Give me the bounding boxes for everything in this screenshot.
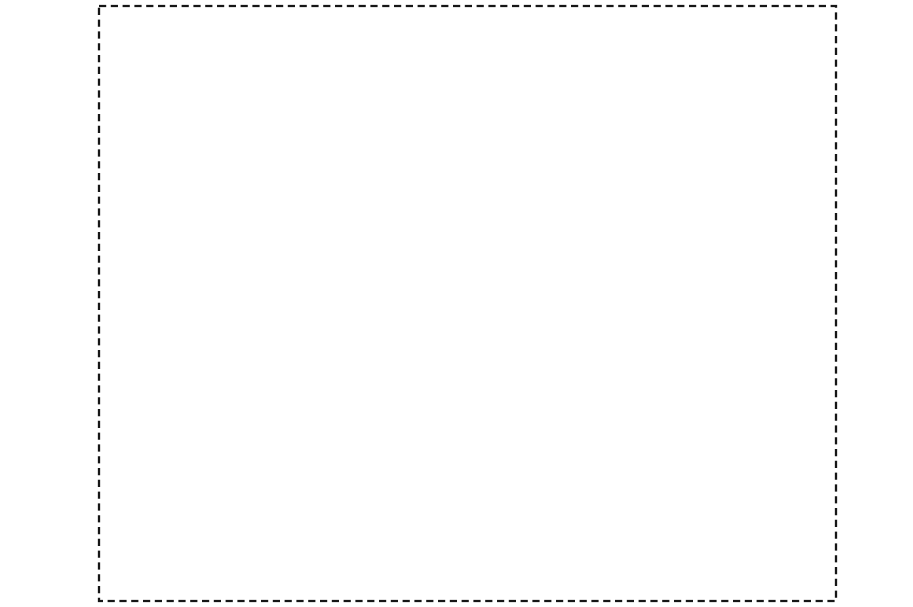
outer dashed boundary of IC (99, 6, 836, 601)
